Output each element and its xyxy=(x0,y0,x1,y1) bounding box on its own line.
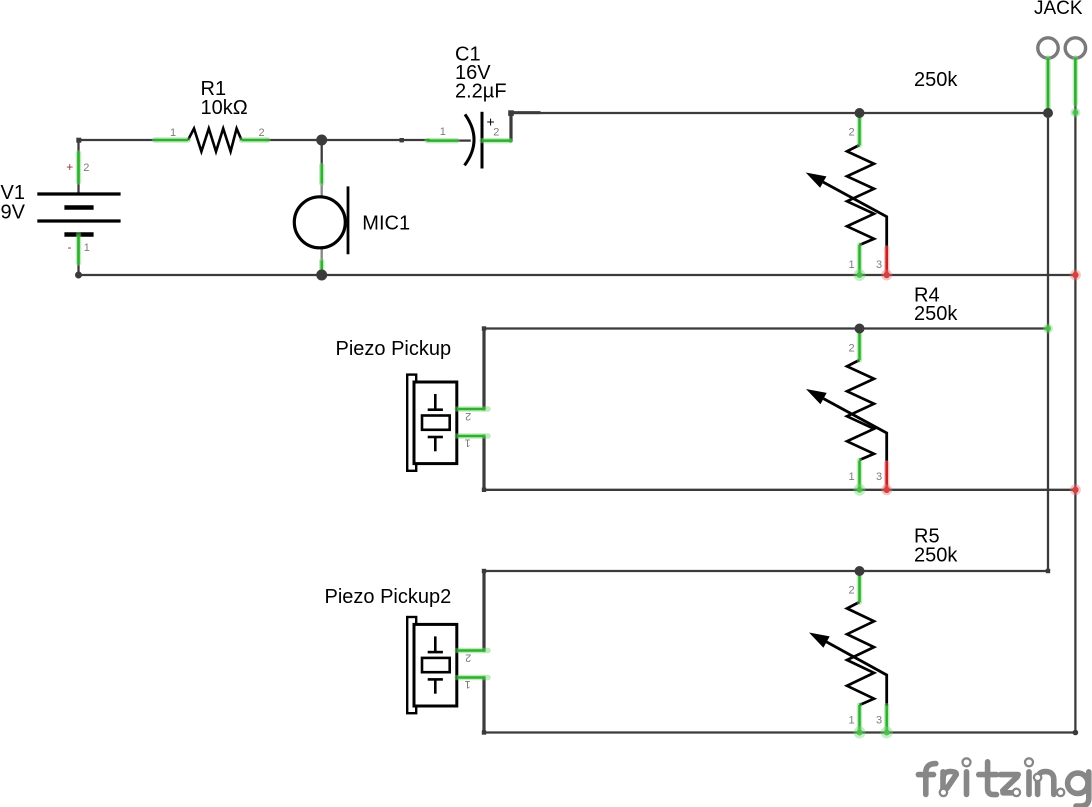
wire battery minus lead (vertical) xyxy=(77,235,79,276)
svg-text:3: 3 xyxy=(876,471,882,483)
wire node A to MIC1 top xyxy=(321,140,323,167)
wire row2 bottom rail xyxy=(484,489,1075,491)
junction dot MIC1 bottom on ground rail xyxy=(316,270,327,281)
red unconnected endpoint dots xyxy=(884,272,1079,493)
svg-text:250k: 250k xyxy=(914,69,958,91)
svg-text:1: 1 xyxy=(84,242,90,254)
bend point square piezo bottom corner xyxy=(482,488,486,492)
wire MIC1 bottom to ground rail xyxy=(321,268,323,275)
potentiometer R4 zigzag xyxy=(847,360,874,460)
wire piezo pickup vertical bottom xyxy=(482,436,485,490)
bend point square battery top corner xyxy=(76,138,81,143)
wire bottom rail row1 (battery minus to far right) xyxy=(79,274,1076,276)
end point dot row3 rail right xyxy=(1073,730,1079,736)
svg-text:JACK: JACK xyxy=(1034,0,1083,19)
capacitor C1 curved plate xyxy=(465,114,475,165)
fritzing watermark logo xyxy=(918,762,1088,806)
wire row2 top rail piezo to pot R4 xyxy=(484,327,1048,329)
bend point square piezo2 bottom corner xyxy=(482,730,486,734)
wire row3 top rail piezo2 to pot R5 xyxy=(484,570,1048,572)
bend point square on wire R1-C1 xyxy=(400,138,404,142)
red unconnected wiper leads (core layer) xyxy=(885,247,888,489)
svg-text:3: 3 xyxy=(876,259,882,271)
bend point square piezo top corner xyxy=(482,326,486,330)
wire battery plus lead (vertical) xyxy=(77,139,79,194)
red unconnected wiper leads (glow layer) xyxy=(884,248,890,487)
potentiometer 250k (top) zigzag xyxy=(847,145,874,245)
bend point square jack-tip wire corner row3 xyxy=(1046,569,1050,573)
svg-text:2: 2 xyxy=(849,127,855,139)
battery V1 9V xyxy=(37,194,120,235)
svg-text:1: 1 xyxy=(849,471,855,483)
svg-text:MIC1: MIC1 xyxy=(362,213,410,235)
wire C1 up-bend to top rail xyxy=(509,113,512,141)
svg-text:1: 1 xyxy=(465,678,471,690)
bend point square C1 corner xyxy=(508,110,514,116)
piezo pickup inner symbol (row2) xyxy=(422,394,450,451)
piezo pickup2 inner symbol (row3) xyxy=(422,636,450,693)
svg-text:1: 1 xyxy=(849,715,855,727)
potentiometer R4 wiper arrow xyxy=(824,399,887,462)
svg-text:-: - xyxy=(68,240,72,254)
svg-text:2: 2 xyxy=(493,127,499,139)
potentiometer 250k (top) wiper arrow xyxy=(823,182,887,247)
bend point square piezo2 top corner xyxy=(482,569,486,573)
wire JACK tip vertical down to row3 xyxy=(1047,60,1049,571)
potentiometer R5 zigzag xyxy=(847,602,874,705)
wire row3 bottom rail xyxy=(484,731,1075,733)
microphone MIC1 circle xyxy=(294,197,345,248)
junction dot row3 rail / pot R5 pin2 xyxy=(855,566,865,576)
wire top rail C1 to JACK tip (horizontal) xyxy=(511,112,1048,114)
green endpoint glow dots xyxy=(482,110,1078,736)
piezo pickup2 body (row3) xyxy=(407,617,457,713)
svg-text:2: 2 xyxy=(259,127,265,139)
svg-text:Piezo Pickup: Piezo Pickup xyxy=(336,338,452,360)
potentiometer R5 wiper arrow xyxy=(827,642,887,706)
svg-text:2: 2 xyxy=(465,410,471,422)
svg-text:250k: 250k xyxy=(914,545,958,567)
green connected-lead highlights (core layer) xyxy=(79,58,1076,732)
svg-text:+: + xyxy=(66,160,73,174)
svg-text:2: 2 xyxy=(849,343,855,355)
svg-text:2: 2 xyxy=(465,652,471,664)
junction dot top rail / JACK tip xyxy=(1043,108,1053,118)
svg-text:10kΩ: 10kΩ xyxy=(201,97,248,119)
capacitor C1 straight plate xyxy=(481,112,484,169)
wire segment overlap at C1 corner xyxy=(511,111,541,114)
wire piezo pickup vertical top xyxy=(482,329,485,410)
junction dot row2 rail / pot R4 pin2 xyxy=(855,324,865,334)
junction dot node A (R1/C1/MIC1) xyxy=(316,135,327,146)
svg-text:9V: 9V xyxy=(1,202,26,224)
svg-text:2: 2 xyxy=(849,585,855,597)
svg-text:Piezo Pickup2: Piezo Pickup2 xyxy=(325,586,452,608)
svg-text:1: 1 xyxy=(170,127,176,139)
svg-text:1: 1 xyxy=(465,437,471,449)
svg-text:3: 3 xyxy=(876,715,882,727)
wire piezo pickup2 vertical top xyxy=(482,571,485,651)
green connected-lead highlights (glow layer) xyxy=(79,58,1076,731)
resistor R1 10k zigzag xyxy=(188,129,242,152)
svg-text:1: 1 xyxy=(440,126,446,138)
junction dot top rail / pot 250k pin2 xyxy=(855,108,865,118)
wire JACK sleeve vertical down to row3 bottom xyxy=(1074,60,1076,733)
junction dot battery minus on ground rail xyxy=(75,272,82,279)
svg-text:2.2µF: 2.2µF xyxy=(455,81,507,103)
svg-text:1: 1 xyxy=(849,259,855,271)
jack pin circles (JACK) xyxy=(1038,38,1086,58)
wire R1 to C1 (horizontal) xyxy=(265,139,430,141)
microphone MIC1 side bar xyxy=(347,186,350,254)
svg-text:250k: 250k xyxy=(914,303,958,325)
capacitor C1 pin1 lead into arc xyxy=(457,139,471,141)
wire piezo pickup2 vertical bottom xyxy=(482,678,485,733)
piezo pickup body (row2) xyxy=(407,375,457,471)
svg-text:2: 2 xyxy=(83,162,89,174)
microphone MIC1 lead stubs (gray) xyxy=(321,166,323,271)
wire battery to R1 (horizontal) xyxy=(77,139,158,141)
